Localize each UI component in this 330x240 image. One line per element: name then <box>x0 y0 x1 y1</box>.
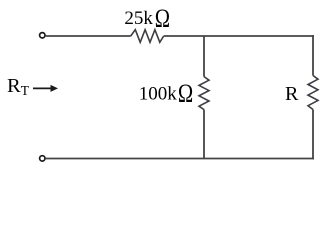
svg-text:Ω: Ω <box>178 80 193 109</box>
wire right vertical top <box>312 35 314 75</box>
label 25kOhm <box>124 5 170 34</box>
svg-text:R: R <box>285 83 299 105</box>
terminal top-left <box>40 33 45 38</box>
svg-text:100k: 100k <box>139 84 178 105</box>
wire top left segment <box>46 35 131 37</box>
svg-text:RT: RT <box>7 75 30 98</box>
resistor R1 25k <box>131 30 164 43</box>
svg-text:25k: 25k <box>124 8 153 29</box>
terminal bottom-left <box>40 156 45 161</box>
label 100kOhm <box>139 80 193 109</box>
wire right vertical bottom <box>312 110 314 160</box>
wire top right segment <box>164 35 314 37</box>
resistor 100k <box>199 77 209 110</box>
arrow RT direction <box>33 87 52 89</box>
wire middle vertical bottom <box>203 110 205 159</box>
wire bottom <box>46 158 314 160</box>
svg-text:Ω: Ω <box>155 5 170 34</box>
resistor R <box>308 76 318 110</box>
wire middle vertical top <box>203 36 205 77</box>
